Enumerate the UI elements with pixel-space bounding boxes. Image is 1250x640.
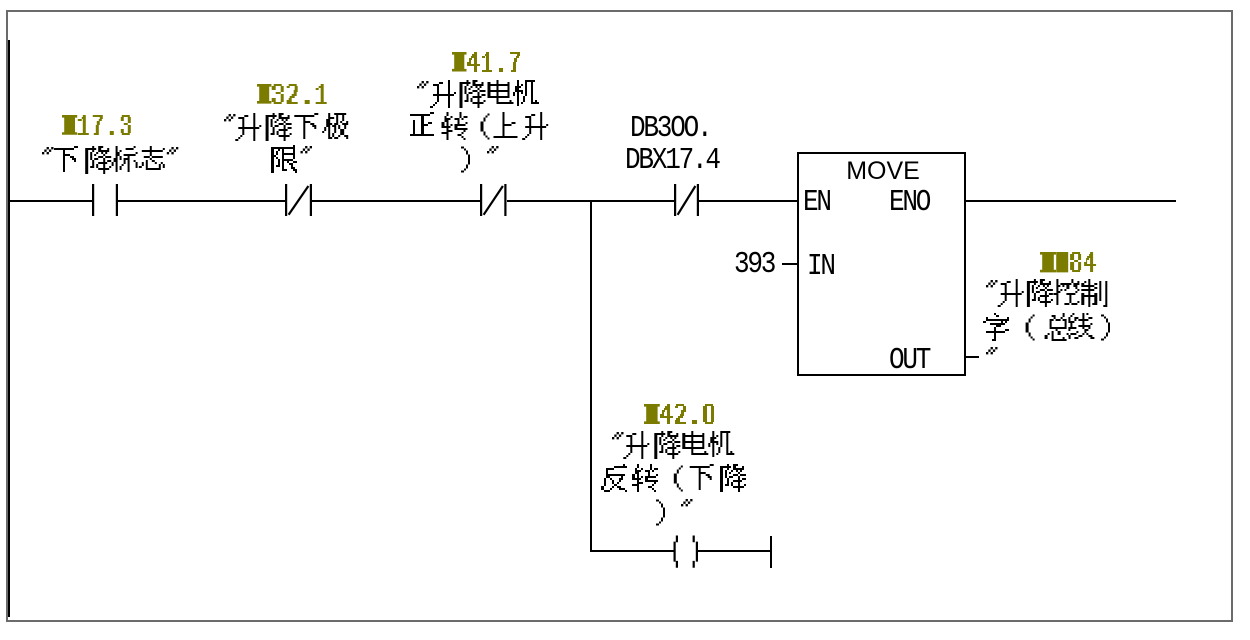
wire coil to terminator <box>698 550 771 552</box>
label "升降电机反转" line2 <box>599 464 750 504</box>
constant 393 <box>734 246 821 283</box>
contact DB300.DBX17.4 (NC) <box>674 184 699 216</box>
pin label IN <box>807 248 867 285</box>
label "升降下极限" line1 <box>222 113 352 153</box>
label "升降电机正转" line2 <box>408 112 552 152</box>
wire branch to coil <box>590 550 674 552</box>
label M42.0 <box>644 404 718 426</box>
wire DB contact to MOVE box <box>699 200 797 202</box>
label "升降下极限" line2 <box>269 145 331 185</box>
label M41.7 <box>452 52 524 74</box>
branch wire down to coil <box>590 200 592 552</box>
label MW84 <box>1040 252 1101 274</box>
label "下降标志" <box>40 146 197 186</box>
wire ENO output <box>966 200 1176 202</box>
pin label EN <box>803 184 863 221</box>
wire M41.7 to DB contact <box>507 200 675 202</box>
box title MOVE <box>833 158 933 184</box>
wire M17.3 to M32.1 <box>118 200 285 202</box>
label DB300. line2 <box>625 142 816 179</box>
wire M32.1 to M41.7 <box>312 200 480 202</box>
label M17.3 <box>62 115 135 137</box>
left power rail <box>8 40 10 617</box>
label "升降控制字" line1 <box>984 279 1111 319</box>
label M32.1 <box>257 84 331 106</box>
contact M17.3 (NO) <box>92 184 118 216</box>
pin label OUT <box>889 342 976 379</box>
wire 393 to IN pin <box>782 263 799 265</box>
label "升降电机正转" line3 <box>459 145 517 185</box>
label "升降控制字" line3 <box>984 346 1016 386</box>
wire OUT pin stub <box>966 356 979 358</box>
contact M41.7 (NC) <box>480 184 507 216</box>
rung terminator bar <box>770 536 772 568</box>
label "升降电机反转" line3 <box>654 498 711 538</box>
label "升降电机反转" line1 <box>610 431 738 471</box>
wire rail to contact M17.3 <box>10 200 92 202</box>
MOVE box U1 <box>797 152 966 376</box>
label DB300. line1 <box>630 110 795 147</box>
coil M42.0 <box>672 535 700 569</box>
label "升降电机正转" line1 <box>415 80 543 120</box>
contact M32.1 (NC) <box>285 184 312 216</box>
pin label ENO <box>889 184 976 221</box>
label "升降控制字" line2 <box>981 313 1131 353</box>
